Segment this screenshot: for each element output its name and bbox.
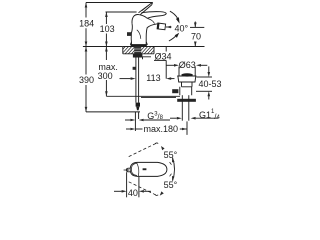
spout blade bbox=[142, 12, 167, 19]
body right side down to aerator bbox=[146, 24, 157, 45]
svg-text:G11/4: G11/4 bbox=[199, 109, 220, 121]
pop-up actuator nub bbox=[127, 32, 132, 36]
handle plan outline bbox=[124, 162, 167, 176]
wire extension line top (lever tip level) bbox=[86, 2, 152, 4]
dashed swung handle upper bbox=[129, 143, 172, 165]
svg-text:184: 184 bbox=[79, 18, 94, 28]
svg-text:70: 70 bbox=[191, 31, 201, 41]
faucet lever bbox=[139, 2, 153, 14]
label diameter 34 bbox=[154, 47, 172, 79]
pop-up actuator arm bbox=[142, 57, 152, 59]
wire deck top extension line bbox=[83, 46, 123, 48]
label G3/8 with leader bbox=[125, 111, 170, 121]
svg-text:300: 300 bbox=[98, 71, 113, 81]
rod clamp bar bbox=[177, 99, 196, 102]
dimension 40 plan bbox=[114, 172, 151, 198]
pivot dome bbox=[132, 15, 146, 24]
pop-up drain assembly bbox=[172, 67, 196, 121]
svg-text:103: 103 bbox=[100, 24, 115, 34]
svg-text:40: 40 bbox=[128, 188, 138, 198]
tailpipe bbox=[181, 95, 183, 121]
base gasket bbox=[131, 44, 147, 46]
svg-text:max.180: max.180 bbox=[144, 124, 179, 134]
svg-text:40-53: 40-53 bbox=[199, 79, 222, 89]
deck slab with hatch bbox=[118, 46, 205, 55]
svg-text:390: 390 bbox=[79, 75, 94, 85]
dimension 184 bbox=[79, 3, 94, 47]
flange bbox=[177, 75, 196, 77]
plug box bbox=[178, 67, 180, 77]
hose G3/8 end fitting bbox=[136, 103, 140, 111]
40 degree spray angle arcs bbox=[169, 11, 180, 41]
dimension 113 bbox=[120, 73, 175, 83]
svg-text:113: 113 bbox=[146, 73, 160, 83]
wire extension line body top level bbox=[106, 11, 137, 13]
dimension 40-53 bbox=[196, 66, 222, 99]
label diameter 63 with arrows bbox=[167, 60, 208, 70]
arc arrow 55deg range bbox=[172, 157, 175, 181]
dashed swung handle lower bbox=[129, 173, 172, 196]
wire spout outlet extension line with arrow bbox=[166, 26, 172, 28]
wire pop-up rod / max300 bottom extension bbox=[106, 95, 180, 97]
svg-text:55°: 55° bbox=[164, 180, 178, 190]
dimension max.300 bbox=[98, 47, 118, 97]
neck bbox=[182, 82, 193, 87]
dimension max.180 bbox=[126, 112, 187, 135]
svg-text:Ø63: Ø63 bbox=[179, 60, 196, 70]
supply hoses bbox=[133, 58, 139, 103]
nub on handle left bbox=[126, 168, 130, 172]
wire 390 bottom extension line bbox=[86, 111, 140, 113]
faucet shank below deck bbox=[133, 47, 143, 58]
base flare bbox=[130, 42, 147, 45]
svg-text:40°: 40° bbox=[175, 24, 189, 34]
dimension 70 bbox=[191, 22, 201, 47]
dimension 103 bbox=[100, 12, 115, 47]
label G1 1/4 with leader bbox=[170, 109, 220, 121]
svg-text:55°: 55° bbox=[164, 150, 178, 160]
aerator block bbox=[157, 23, 166, 30]
clamp body bbox=[180, 87, 192, 95]
faucet body and spout bbox=[127, 12, 166, 47]
inner waist arc bbox=[137, 30, 141, 39]
dimension 390 bbox=[79, 47, 94, 112]
body left side bbox=[131, 23, 132, 44]
